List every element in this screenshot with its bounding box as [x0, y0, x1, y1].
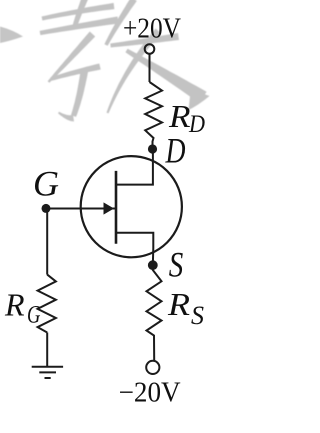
svg-text:+20V: +20V — [123, 14, 181, 45]
node D junction dot — [148, 144, 157, 153]
svg-text:D: D — [188, 111, 205, 138]
svg-text:R: R — [4, 286, 25, 322]
node S junction dot — [148, 260, 158, 270]
svg-text:R: R — [167, 286, 191, 322]
wire: node G down to RG — [46, 208, 48, 274]
wire: +20V terminal to RD — [149, 54, 151, 82]
JFET channel bar — [115, 171, 118, 244]
node G junction dot — [42, 204, 51, 213]
svg-text:S: S — [191, 301, 204, 330]
JFET source lead — [116, 233, 153, 266]
svg-text:D: D — [165, 130, 186, 170]
wire: gate from node G to channel — [46, 208, 115, 210]
wire: RG to ground — [46, 333, 48, 367]
svg-text:G: G — [33, 164, 59, 204]
JFET gate arrowhead — [104, 202, 115, 214]
watermark character — [40, 0, 210, 121]
svg-text:R: R — [168, 98, 191, 134]
svg-text:S: S — [169, 245, 184, 285]
ground symbol — [32, 367, 63, 378]
supply terminal -20V circle — [146, 361, 159, 374]
watermark stroke fragment (left edge) — [0, 27, 23, 44]
resistor RS — [147, 266, 162, 360]
resistor RG — [38, 275, 56, 333]
svg-text:−20V: −20V — [119, 378, 181, 409]
supply terminal +20V circle — [145, 44, 155, 54]
JFET drain lead — [116, 147, 153, 185]
svg-text:G: G — [27, 302, 41, 329]
resistor RD — [145, 82, 162, 149]
JFET Q1 envelope circle — [81, 156, 182, 257]
